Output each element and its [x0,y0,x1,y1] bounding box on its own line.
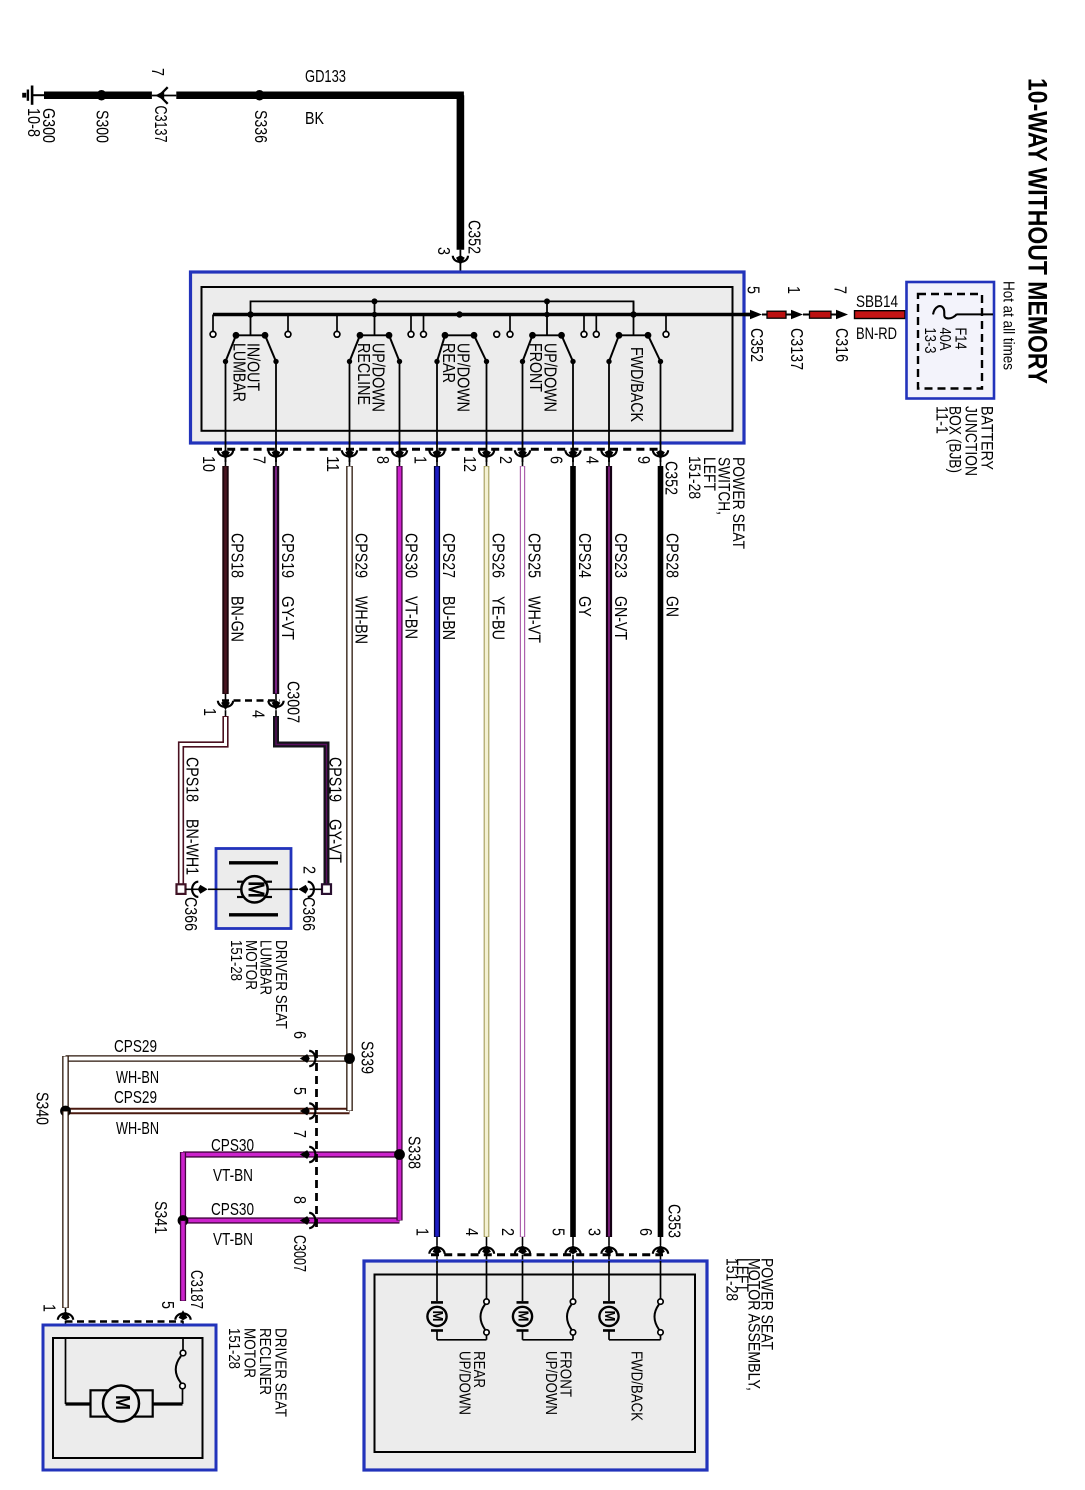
svg-text:M: M [111,1395,133,1410]
svg-text:CPS19: CPS19 [278,533,298,578]
svg-text:CPS18: CPS18 [183,757,203,802]
splice S339 [344,1053,355,1064]
connector C3007 pin 1 arrow [218,701,233,707]
bus junction dots [247,311,253,317]
connector C352 pin 7 arrow [268,450,283,456]
svg-text:4: 4 [583,456,603,464]
svg-text:10-8: 10-8 [24,108,44,137]
svg-text:FWD/BACK: FWD/BACK [627,347,647,422]
wire CPS23 GN-VT [606,466,612,1237]
connector C3137 inline [152,95,176,97]
svg-text:S336: S336 [251,110,271,143]
svg-text:FWD/BACK: FWD/BACK [627,1351,645,1421]
svg-text:9: 9 [634,456,654,464]
svg-text:1: 1 [200,708,220,716]
svg-text:BU-BN: BU-BN [439,596,459,640]
svg-text:3: 3 [585,1228,605,1236]
connector C352 pin 12 arrow [479,450,494,456]
svg-text:2: 2 [300,866,320,874]
svg-text:C366: C366 [299,897,319,931]
recliner wire right [153,1402,183,1405]
connector C3187 dashed [66,1320,184,1323]
motor assembly inner box [375,1275,696,1453]
connector C353 pin 3 arrow [601,1248,616,1254]
wire CPS29 to recliner [62,1111,69,1308]
switch UP/DOWN FRONT [546,301,548,335]
svg-text:GN: GN [663,596,683,617]
svg-text:GY-VT: GY-VT [278,596,298,640]
svg-text:S300: S300 [93,110,113,143]
wire CPS29 WH-BN vertical [346,466,353,1059]
connector C353 dashed [431,1253,663,1256]
svg-text:CPS30: CPS30 [211,1200,254,1219]
wire CPS29 run B [66,1108,350,1114]
svg-text:CPS26: CPS26 [489,533,509,578]
svg-text:Hot at all times: Hot at all times [1000,281,1017,370]
svg-text:FRONT: FRONT [526,343,546,392]
motor M recliner [103,1386,139,1422]
svg-text:7: 7 [290,1130,310,1138]
wire into BJB [905,313,933,315]
wire switch to C352 pin 5 [744,313,751,316]
connector C352 pin 1 arrow [429,450,444,456]
svg-text:10: 10 [199,456,219,472]
motor unit FWD/BACK [608,1261,610,1301]
svg-text:6: 6 [636,1228,656,1236]
driver seat lumbar motor box [216,849,291,929]
connector C352 pin 8 arrow [392,450,407,456]
svg-text:GN-VT: GN-VT [611,596,631,640]
connector C3007 pin 6 arrow [309,1051,315,1066]
connector pin 1 arrow recliner [58,1314,73,1320]
svg-text:11: 11 [323,456,343,472]
svg-text:WH-BN: WH-BN [116,1119,159,1138]
wire CPS29 left corner [62,1056,69,1111]
svg-text:VT-BN: VT-BN [213,1166,253,1185]
connector C3007 pin 5 arrow [309,1103,315,1118]
connector C353 pin 4 arrow [479,1248,494,1254]
svg-text:7: 7 [250,456,270,464]
svg-text:BN-RD: BN-RD [856,324,897,343]
terminal square left C366 [177,884,186,894]
wire CPS18 BN-GN upper [222,466,228,694]
svg-text:151-28: 151-28 [225,1328,243,1369]
power seat switch box inner [202,287,733,431]
svg-text:CPS29: CPS29 [114,1088,157,1107]
connector C3007 dashed [222,699,280,702]
svg-text:VT-BN: VT-BN [213,1230,253,1249]
svg-text:1: 1 [40,1304,60,1312]
wire CPS30 VT-BN vertical [396,466,402,1155]
wire segment [831,314,836,316]
splice S300 [96,90,106,100]
connector C353 pin 1 arrow [429,1247,444,1253]
connector C352 pin 2 arrow [515,450,530,456]
lumbar motor wire [216,888,291,890]
switch FWD/BACK [633,301,635,335]
wire segment [762,314,768,316]
svg-text:4: 4 [249,710,269,718]
wire CPS30 to recliner C3187 [180,1221,186,1302]
wire GD133 BK thick ground wire [44,91,152,99]
svg-text:S340: S340 [33,1092,53,1125]
svg-text:UP/DOWN: UP/DOWN [542,1351,560,1415]
svg-text:SBB14: SBB14 [856,292,898,311]
svg-text:CPS23: CPS23 [611,533,631,578]
ground G300 [31,86,34,105]
svg-text:5: 5 [158,1301,178,1309]
wire segment [786,314,791,316]
svg-text:CPS28: CPS28 [663,533,683,578]
wire CPS30 left corner [180,1152,186,1221]
svg-text:VT-BN: VT-BN [402,596,422,639]
power seat switch box outer [191,272,745,443]
svg-text:8: 8 [373,456,393,464]
connector C3187 pin 5 arrow [175,1313,190,1319]
wire CPS29 run A [66,1055,350,1062]
svg-text:2: 2 [498,1228,518,1236]
svg-text:11-1: 11-1 [932,406,951,434]
svg-text:10-WAY WITHOUT MEMORY: 10-WAY WITHOUT MEMORY [1023,78,1053,384]
wire CPS19 GY-VT upper [273,466,279,694]
connector C352 pin 5 arrow [750,310,762,320]
splice S340 [60,1106,71,1117]
lumbar motor top bar [229,861,278,864]
svg-text:13-3: 13-3 [921,328,938,354]
fuse F14 [933,306,957,318]
svg-text:C352: C352 [747,328,767,362]
svg-text:M: M [429,1311,445,1322]
svg-text:S339: S339 [358,1041,378,1074]
switch UP/DOWN RECLINE [374,301,376,335]
svg-text:CPS29: CPS29 [114,1037,157,1056]
svg-text:BN-WH1: BN-WH1 [183,819,203,875]
recliner brush rect [91,1390,153,1416]
svg-text:LUMBAR: LUMBAR [230,343,250,402]
svg-text:6: 6 [290,1031,310,1039]
BJB dashed box [918,294,982,389]
wire red segment 2 [810,311,832,318]
terminal square right C366 [322,884,331,894]
svg-text:1: 1 [784,286,804,294]
svg-text:151-28: 151-28 [685,456,704,499]
connector C352 pin 4 arrow [601,450,616,456]
recliner switch contact [182,1338,184,1350]
feed bus thin [251,301,634,314]
driver seat recliner motor box [43,1325,216,1470]
wire GD133 vertical drop [457,95,465,249]
connector C353 pin 5 arrow [565,1248,580,1254]
svg-text:C3137: C3137 [151,106,171,143]
connector C3007 dashed vertical [315,1050,318,1231]
svg-text:CPS18: CPS18 [228,533,248,578]
wire CPS18 BN-WH1 lower [181,716,226,886]
connector C3007 pin 7 arrow [309,1147,315,1162]
svg-text:CPS27: CPS27 [439,533,459,578]
hot bus thick [213,313,751,316]
svg-text:151-28: 151-28 [227,940,245,981]
recliner motor box inner [53,1338,203,1458]
svg-text:C3007: C3007 [284,681,304,723]
lumbar motor bottom bar [229,913,278,916]
motor unit FRONT UP/DOWN [522,1261,524,1301]
svg-text:5: 5 [549,1228,569,1236]
svg-text:1: 1 [413,1228,433,1236]
splice S341 [178,1215,189,1226]
connector C366 right arrow [308,882,314,897]
wire segment [803,314,810,316]
connector C353 pin 2 arrow [515,1248,530,1254]
svg-text:WH-BN: WH-BN [352,596,372,644]
switch IN/OUT LUMBAR [250,315,252,336]
wire CPS27 BU-BN [434,466,440,1237]
svg-text:C3007: C3007 [290,1235,310,1272]
connector C3137 arrow [791,310,803,320]
svg-text:BN-GN: BN-GN [228,596,248,642]
wire CPS30 run A [183,1151,400,1157]
svg-text:CPS29: CPS29 [352,533,372,578]
svg-text:2: 2 [496,456,516,464]
wire SBB14 BN-RD red [855,311,906,319]
wire stub into switch box [459,250,461,336]
svg-text:1: 1 [411,456,431,464]
recliner wire left [65,1338,67,1404]
svg-text:C3187: C3187 [187,1270,207,1309]
connector C352 pin 9 arrow [653,450,668,456]
connector C316 arrow [836,310,848,320]
svg-text:6: 6 [547,456,567,464]
svg-text:7: 7 [831,286,851,294]
svg-text:S338: S338 [405,1136,425,1169]
motor unit REAR UP/DOWN [436,1261,438,1301]
wire CPS30 run B [183,1217,400,1223]
motor M lumbar [241,876,267,902]
svg-text:5: 5 [290,1087,310,1095]
svg-text:CPS25: CPS25 [525,533,545,578]
svg-text:CPS30: CPS30 [402,533,422,578]
svg-text:151-28: 151-28 [723,1258,742,1301]
svg-text:S341: S341 [151,1201,171,1234]
wire after fuse [957,313,993,315]
splice S336 [254,90,264,100]
svg-text:GY: GY [575,596,595,617]
connector C366 left arrow [192,882,198,897]
svg-text:REAR: REAR [439,343,459,383]
svg-text:M: M [601,1311,617,1322]
svg-text:8: 8 [290,1196,310,1204]
svg-text:12: 12 [460,456,480,472]
connector C353 pin 6 arrow [653,1248,668,1254]
svg-text:UP/DOWN: UP/DOWN [455,1351,473,1415]
wire CPS19 GY-VT lower [276,716,327,886]
svg-text:7: 7 [148,68,168,76]
connector C3007 pin 8 arrow [309,1213,315,1228]
svg-text:5: 5 [744,286,764,294]
svg-text:4: 4 [462,1228,482,1236]
connector C352 pin 3 arrow [453,256,468,262]
svg-text:CPS30: CPS30 [211,1136,254,1155]
svg-text:CPS24: CPS24 [575,533,595,578]
power seat motor assembly box [364,1261,707,1470]
wire red segment 1 [767,311,786,318]
svg-text:C3137: C3137 [787,328,807,370]
connector C352 pin 11 arrow [342,450,357,456]
svg-text:M: M [244,881,270,898]
svg-text:WH-VT: WH-VT [525,596,545,643]
connector C3007 pin 4 arrow [268,701,283,707]
svg-text:WH-BN: WH-BN [116,1068,159,1087]
splice S338 [394,1149,405,1160]
svg-text:C352: C352 [662,461,682,495]
svg-text:3: 3 [434,247,454,255]
svg-text:C352: C352 [465,220,485,254]
svg-text:F14: F14 [952,328,969,350]
connector C352 pin 6 arrow [565,450,580,456]
svg-text:C316: C316 [832,328,852,362]
svg-text:BK: BK [305,109,324,128]
battery junction box [907,282,995,399]
connector C352 dashed line [214,448,662,451]
svg-text:M: M [515,1311,531,1322]
svg-text:RECLINE: RECLINE [354,343,374,405]
switch UP/DOWN REAR [445,334,474,336]
wire CPS29 S339 drop [346,1059,353,1112]
connector C352 pin 10 arrow [218,450,233,456]
wire CPS24 GY [570,466,576,1237]
svg-text:C353: C353 [665,1204,685,1238]
svg-text:YE-BU: YE-BU [489,596,509,640]
svg-text:GD133: GD133 [305,67,346,86]
wire CPS26 YE-BU [484,466,490,1237]
wire CPS28 GN [658,466,664,1237]
svg-text:GY-VT: GY-VT [326,819,346,863]
wire CPS30 S338 drop [396,1155,402,1221]
svg-text:CPS19: CPS19 [326,757,346,802]
wire CPS25 WH-VT [520,466,525,1237]
svg-text:C366: C366 [181,897,201,931]
